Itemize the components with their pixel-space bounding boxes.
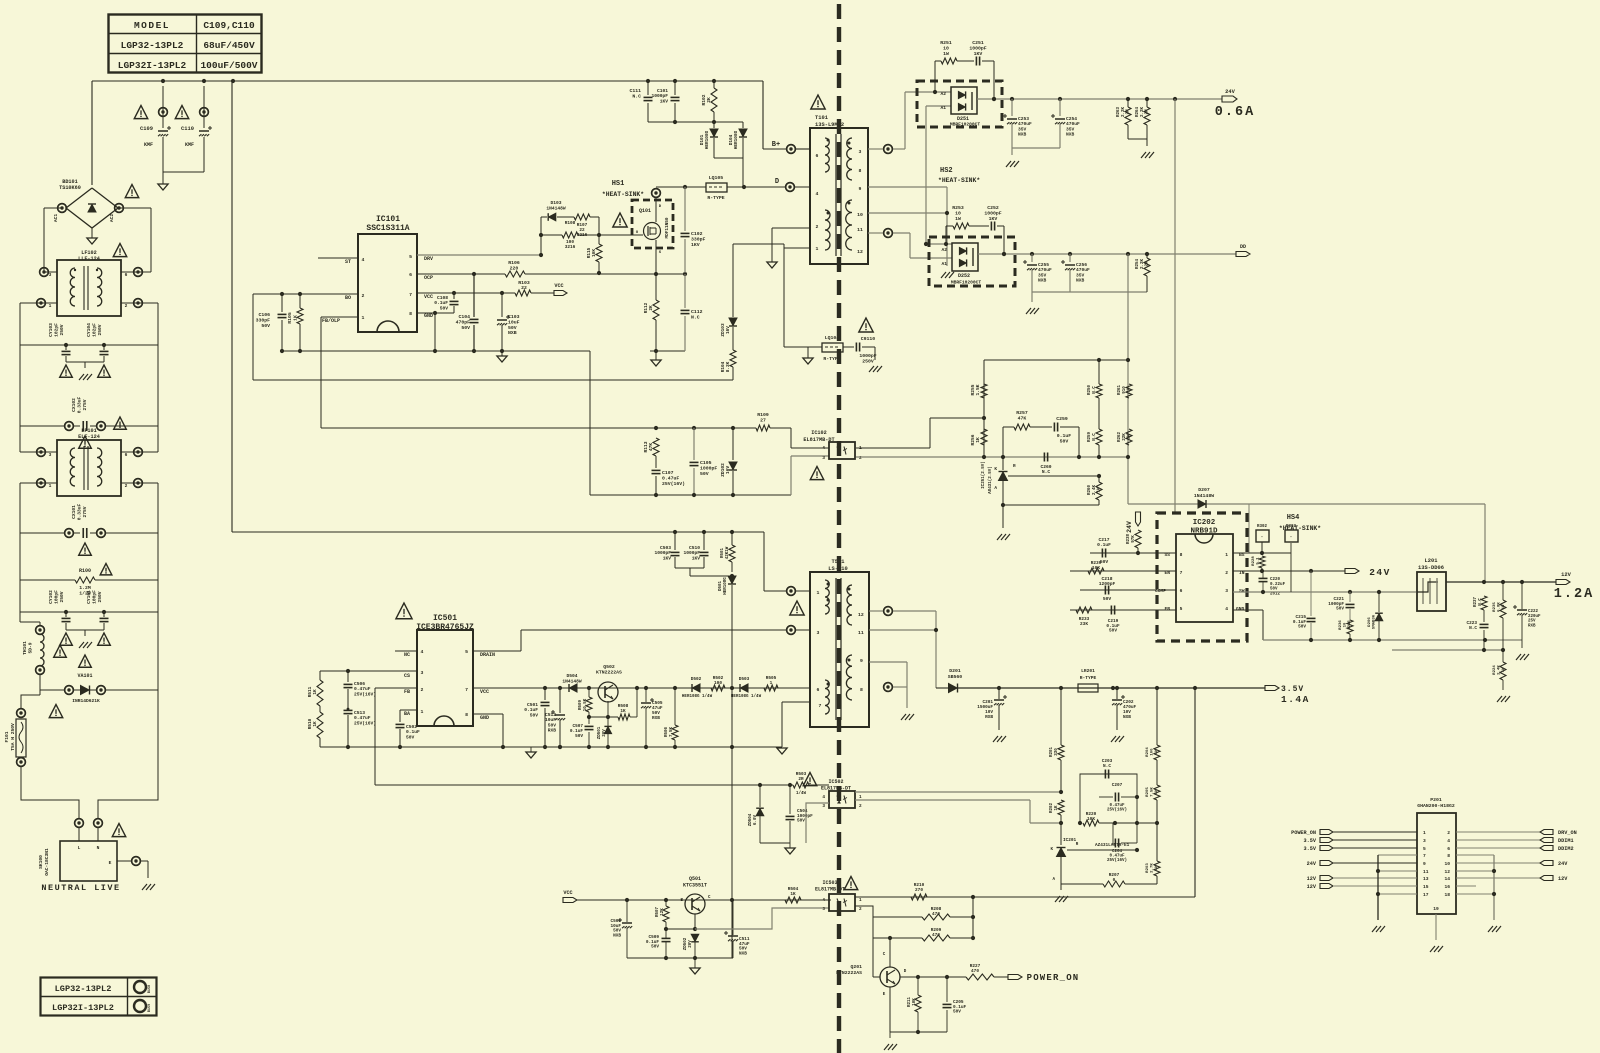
- svg-text:B159: B159: [148, 1004, 152, 1012]
- svg-text:100: 100: [714, 681, 722, 686]
- svg-text:14: 14: [1444, 876, 1450, 882]
- svg-text:1K: 1K: [620, 709, 626, 714]
- svg-text:16V: 16V: [726, 326, 731, 334]
- svg-text:3: 3: [49, 272, 52, 278]
- svg-text:27: 27: [760, 417, 766, 423]
- svg-text:330: 330: [1055, 748, 1059, 756]
- svg-text:DRAIN: DRAIN: [480, 652, 495, 658]
- svg-text:9: 9: [860, 658, 863, 664]
- svg-text:N.C: N.C: [691, 315, 700, 321]
- svg-text:IC501: IC501: [433, 614, 457, 623]
- svg-text:50V: 50V: [1270, 588, 1278, 592]
- svg-text:1.5K: 1.5K: [975, 384, 981, 395]
- svg-text:6: 6: [1180, 588, 1183, 594]
- svg-text:10K: 10K: [1087, 817, 1095, 822]
- svg-text:R201: R201: [1050, 746, 1054, 757]
- svg-text:C109: C109: [140, 126, 153, 132]
- svg-text:R251: R251: [940, 40, 952, 46]
- svg-text:4: 4: [362, 257, 365, 263]
- svg-text:3.5V: 3.5V: [1281, 685, 1304, 694]
- svg-text:250V: 250V: [97, 324, 103, 335]
- svg-text:KTN2222AS: KTN2222AS: [596, 670, 622, 676]
- svg-text:ST: ST: [345, 259, 351, 265]
- svg-text:INR14D621K: INR14D621K: [72, 698, 100, 704]
- svg-text:3: 3: [49, 452, 52, 458]
- svg-text:1W: 1W: [1128, 434, 1132, 440]
- svg-text:100pF: 100pF: [53, 590, 59, 604]
- svg-text:10K: 10K: [1092, 566, 1100, 571]
- svg-text:2.2K: 2.2K: [1141, 106, 1145, 117]
- svg-text:50V: 50V: [797, 819, 805, 824]
- svg-text:ZD102: ZD102: [720, 463, 726, 477]
- svg-text:NEUTRAL LIVE: NEUTRAL LIVE: [41, 883, 120, 893]
- svg-text:7: 7: [409, 292, 412, 298]
- svg-text:0.1uF: 0.1uF: [406, 729, 420, 735]
- svg-text:7.5K: 7.5K: [1151, 787, 1155, 797]
- svg-text:24V: 24V: [1126, 521, 1133, 533]
- svg-text:IC101: IC101: [376, 215, 400, 224]
- svg-text:R263: R263: [1117, 106, 1121, 117]
- svg-text:CX102: CX102: [71, 398, 77, 412]
- svg-text:1KV: 1KV: [692, 555, 701, 561]
- svg-text:LGP32-13PL2: LGP32-13PL2: [55, 984, 112, 994]
- svg-text:20V: 20V: [689, 940, 693, 948]
- svg-text:8: 8: [409, 311, 412, 317]
- svg-text:15: 15: [1423, 884, 1429, 890]
- svg-text:1200pF: 1200pF: [1099, 581, 1116, 587]
- svg-text:22: 22: [521, 285, 527, 291]
- svg-text:35V: 35V: [1018, 126, 1027, 132]
- svg-text:5: 5: [1180, 606, 1183, 612]
- svg-text:A1: A1: [941, 261, 947, 267]
- svg-text:1.4A: 1.4A: [1281, 694, 1310, 705]
- svg-text:R509: R509: [579, 699, 583, 710]
- svg-text:E: E: [109, 860, 112, 866]
- svg-text:8.2K: 8.2K: [726, 361, 731, 372]
- svg-text:R105: R105: [287, 312, 293, 324]
- svg-text:1KV: 1KV: [691, 242, 700, 248]
- svg-text:275V: 275V: [82, 399, 88, 410]
- svg-text:C506: C506: [354, 681, 365, 687]
- svg-text:Q502: Q502: [603, 664, 615, 670]
- svg-text:2W: 2W: [1127, 109, 1131, 115]
- svg-text:IC201: IC201: [1063, 838, 1077, 843]
- svg-text:3: 3: [1423, 838, 1426, 844]
- svg-text:R205: R205: [1146, 787, 1150, 797]
- svg-text:50V: 50V: [1103, 596, 1112, 602]
- svg-text:2.7K: 2.7K: [1151, 863, 1155, 873]
- svg-text:1N4148W: 1N4148W: [546, 205, 566, 211]
- svg-text:C501: C501: [527, 702, 538, 708]
- svg-text:DDIM2: DDIM2: [1558, 846, 1574, 852]
- svg-text:R236: R236: [1339, 620, 1343, 630]
- svg-text:2: 2: [125, 483, 128, 489]
- svg-text:0.33uF: 0.33uF: [76, 503, 82, 520]
- svg-text:*HEAT-SINK*: *HEAT-SINK*: [938, 177, 980, 184]
- svg-text:22K: 22K: [1123, 433, 1127, 441]
- svg-text:1000pF: 1000pF: [969, 45, 986, 51]
- svg-text:N.C: N.C: [1093, 433, 1097, 441]
- svg-text:D502: D502: [691, 677, 702, 682]
- svg-text:LGP32I-13PL2: LGP32I-13PL2: [52, 1003, 114, 1013]
- svg-text:6: 6: [817, 687, 820, 693]
- svg-text:LLF-124: LLF-124: [78, 256, 100, 262]
- svg-text:R211: R211: [908, 996, 912, 1007]
- svg-text:A2: A2: [941, 247, 947, 253]
- svg-text:0.47uF: 0.47uF: [1109, 804, 1125, 808]
- svg-text:23K: 23K: [1080, 622, 1088, 627]
- svg-text:AZ431LANTR-E1: AZ431LANTR-E1: [1095, 843, 1130, 848]
- svg-text:470uF: 470uF: [1038, 267, 1052, 273]
- svg-text:NXB: NXB: [1018, 132, 1027, 138]
- svg-text:B+: B+: [772, 141, 780, 149]
- svg-text:1.2A: 1.2A: [1554, 587, 1594, 602]
- svg-text:LR201: LR201: [1081, 668, 1095, 674]
- svg-text:24V: 24V: [1369, 567, 1391, 578]
- svg-text:SW: SW: [1239, 588, 1245, 594]
- svg-text:20V: 20V: [603, 729, 607, 737]
- svg-text:1K: 1K: [313, 689, 318, 695]
- svg-text:1K: 1K: [1055, 805, 1059, 811]
- svg-text:TS10K60: TS10K60: [59, 185, 81, 191]
- svg-text:A: A: [994, 486, 997, 491]
- svg-text:EL817MB-DT: EL817MB-DT: [821, 786, 851, 792]
- svg-text:10: 10: [1344, 622, 1348, 627]
- svg-text:1000pF: 1000pF: [651, 93, 668, 99]
- svg-text:50V: 50V: [1109, 629, 1117, 634]
- svg-text:10K: 10K: [913, 998, 917, 1006]
- svg-text:12V: 12V: [1558, 876, 1568, 882]
- svg-text:1K: 1K: [313, 721, 318, 727]
- svg-text:25V: 25V: [1528, 620, 1536, 624]
- svg-text:1: 1: [859, 898, 862, 903]
- svg-text:13S-DD06: 13S-DD06: [1418, 565, 1444, 571]
- svg-text:OAC-18C3N1: OAC-18C3N1: [44, 848, 50, 876]
- svg-text:7: 7: [465, 687, 468, 693]
- svg-text:1000pF: 1000pF: [859, 353, 876, 359]
- svg-text:C112: C112: [691, 309, 703, 315]
- svg-text:Q501: Q501: [689, 876, 701, 882]
- svg-text:N: N: [97, 845, 100, 851]
- svg-text:17: 17: [1423, 892, 1429, 898]
- svg-text:0.47uF: 0.47uF: [662, 476, 679, 482]
- svg-text:DD: DD: [1240, 244, 1246, 250]
- svg-text:BO: BO: [345, 295, 351, 301]
- svg-text:2.2K: 2.2K: [1122, 106, 1126, 117]
- svg-text:ZD504: ZD504: [749, 813, 753, 826]
- svg-text:12: 12: [858, 612, 864, 618]
- svg-text:BA: BA: [404, 711, 410, 717]
- svg-text:ZD502: ZD502: [684, 937, 688, 950]
- svg-text:N.C: N.C: [1479, 598, 1483, 606]
- svg-text:NXB: NXB: [1076, 278, 1085, 284]
- svg-text:6: 6: [1447, 846, 1450, 852]
- svg-text:4: 4: [822, 898, 825, 903]
- svg-text:HER108G: HER108G: [734, 130, 739, 149]
- svg-text:R224: R224: [1493, 665, 1497, 675]
- svg-text:OCP: OCP: [424, 275, 433, 281]
- svg-text:D503: D503: [739, 677, 750, 682]
- svg-text:R203: R203: [1146, 863, 1150, 873]
- svg-text:50V: 50V: [440, 305, 449, 311]
- svg-text:R102: R102: [701, 94, 707, 105]
- svg-text:2: 2: [859, 804, 862, 809]
- svg-text:10: 10: [857, 212, 863, 218]
- svg-text:2: 2: [125, 303, 128, 309]
- svg-text:50V: 50V: [261, 323, 270, 329]
- svg-text:KTC3551T: KTC3551T: [683, 883, 707, 889]
- svg-text:D251: D251: [957, 116, 969, 122]
- svg-text:1W: 1W: [1155, 749, 1159, 754]
- svg-text:10: 10: [1444, 861, 1450, 867]
- svg-text:IC202: IC202: [1193, 519, 1216, 527]
- svg-text:250V: 250V: [59, 591, 65, 602]
- svg-text:250V: 250V: [59, 324, 65, 335]
- svg-text:4: 4: [1447, 838, 1450, 844]
- svg-text:*HEAT-SINK*: *HEAT-SINK*: [602, 191, 644, 198]
- svg-text:0: 0: [1113, 878, 1116, 883]
- svg-text:50V: 50V: [406, 734, 415, 740]
- svg-text:Q201: Q201: [850, 964, 862, 970]
- svg-text:5: 5: [1423, 846, 1426, 852]
- svg-text:35V: 35V: [1066, 126, 1075, 132]
- svg-text:IC503: IC503: [822, 880, 837, 886]
- svg-text:R259: R259: [1088, 431, 1092, 442]
- svg-text:VCC: VCC: [563, 890, 572, 896]
- svg-text:P201: P201: [1430, 797, 1442, 803]
- svg-text:3: 3: [421, 670, 424, 676]
- svg-text:CY101: CY101: [86, 590, 92, 604]
- svg-text:1K: 1K: [975, 437, 981, 443]
- svg-text:0.33uF: 0.33uF: [76, 396, 82, 413]
- svg-text:D504: D504: [566, 673, 577, 679]
- svg-text:16: 16: [1444, 884, 1450, 890]
- svg-text:C111: C111: [629, 88, 641, 94]
- svg-text:NXB: NXB: [1123, 715, 1131, 720]
- svg-text:DDIM1: DDIM1: [1558, 838, 1574, 844]
- svg-text:102pF: 102pF: [91, 323, 97, 337]
- svg-text:11: 11: [858, 630, 864, 636]
- svg-text:12K: 12K: [661, 908, 665, 916]
- svg-text:HS1: HS1: [612, 180, 625, 188]
- svg-text:50V: 50V: [548, 722, 557, 728]
- svg-text:C102: C102: [691, 231, 703, 237]
- svg-text:R303: R303: [1286, 525, 1297, 529]
- svg-text:8: 8: [860, 687, 863, 693]
- svg-text:R262: R262: [1118, 431, 1122, 442]
- svg-text:1W: 1W: [1155, 789, 1159, 794]
- svg-text:25V(16V): 25V(16V): [354, 720, 376, 726]
- svg-text:R507: R507: [656, 906, 660, 917]
- svg-text:CX101: CX101: [71, 505, 77, 519]
- svg-text:D252: D252: [958, 273, 970, 279]
- svg-text:C9110: C9110: [861, 336, 876, 342]
- svg-text:NXB: NXB: [1066, 132, 1075, 138]
- svg-text:Q101: Q101: [639, 208, 651, 214]
- svg-text:IC502: IC502: [828, 779, 843, 785]
- svg-text:1W: 1W: [1502, 604, 1506, 609]
- svg-text:C513: C513: [354, 710, 365, 716]
- svg-text:MODEL: MODEL: [134, 20, 170, 31]
- svg-text:F101: F101: [4, 731, 10, 742]
- svg-text:4: 4: [822, 445, 825, 451]
- svg-text:3.5V: 3.5V: [1304, 846, 1317, 852]
- svg-text:R254: R254: [1136, 258, 1140, 269]
- svg-text:5D-9: 5D-9: [27, 642, 33, 653]
- svg-text:12: 12: [1444, 869, 1450, 875]
- svg-text:POWER_ON: POWER_ON: [1027, 973, 1080, 983]
- svg-text:DRV_ON: DRV_ON: [1558, 830, 1577, 836]
- svg-text:HS4: HS4: [1287, 514, 1300, 522]
- svg-text:50V: 50V: [651, 945, 659, 950]
- svg-text:NXB: NXB: [1038, 278, 1047, 284]
- svg-text:C108: C108: [437, 295, 448, 301]
- svg-text:HER108G: HER108G: [724, 577, 728, 595]
- svg-text:C110: C110: [181, 126, 194, 132]
- svg-text:CS: CS: [404, 673, 410, 679]
- svg-text:MDF11N50: MDF11N50: [665, 217, 670, 238]
- svg-text:FB: FB: [404, 689, 410, 695]
- svg-text:24V: 24V: [1307, 861, 1317, 867]
- svg-text:C253: C253: [1018, 116, 1029, 122]
- svg-text:25V(16V): 25V(16V): [662, 481, 685, 487]
- svg-text:C207: C207: [1112, 783, 1123, 788]
- svg-text:9: 9: [859, 186, 862, 192]
- svg-text:T5A H 250V: T5A H 250V: [10, 723, 16, 751]
- svg-text:IC102: IC102: [811, 430, 827, 436]
- svg-text:11: 11: [1423, 869, 1429, 875]
- svg-text:47K: 47K: [1018, 415, 1027, 421]
- svg-text:25V(16V): 25V(16V): [1107, 858, 1127, 863]
- svg-text:R202: R202: [1050, 802, 1054, 813]
- svg-text:HER108G: HER108G: [705, 130, 710, 149]
- svg-text:12V: 12V: [1561, 572, 1571, 578]
- svg-text:330pF: 330pF: [691, 237, 706, 243]
- svg-text:35V: 35V: [1076, 272, 1085, 278]
- svg-text:250V: 250V: [97, 591, 103, 602]
- svg-text:IC251(2.5V): IC251(2.5V): [981, 461, 986, 489]
- svg-text:C109,C110: C109,C110: [203, 20, 255, 31]
- svg-text:C512: C512: [545, 712, 556, 718]
- svg-text:KMF: KMF: [144, 142, 153, 148]
- svg-text:10: 10: [955, 210, 961, 216]
- svg-text:C204: C204: [1112, 850, 1123, 854]
- svg-text:3: 3: [817, 630, 820, 636]
- svg-text:1KV: 1KV: [989, 216, 998, 222]
- svg-text:10uF: 10uF: [508, 319, 520, 325]
- svg-text:N.C: N.C: [1103, 764, 1111, 769]
- svg-text:8: 8: [1180, 552, 1183, 558]
- svg-text:2R: 2R: [798, 777, 804, 782]
- svg-text:VCC: VCC: [424, 294, 433, 300]
- svg-text:1000pF: 1000pF: [654, 550, 671, 556]
- svg-text:C107: C107: [662, 470, 674, 476]
- svg-text:50V: 50V: [1060, 439, 1069, 445]
- svg-text:R237: R237: [1474, 596, 1478, 607]
- svg-text:RXB: RXB: [652, 716, 660, 721]
- svg-text:N.C: N.C: [632, 93, 641, 99]
- svg-text:R-TYPE: R-TYPE: [707, 195, 724, 201]
- svg-text:D501: D501: [719, 580, 723, 591]
- svg-text:C217: C217: [1098, 537, 1109, 543]
- svg-text:1N4148W: 1N4148W: [1194, 493, 1214, 499]
- svg-text:7: 7: [1423, 853, 1426, 859]
- svg-text:0.1uF: 0.1uF: [1097, 542, 1111, 548]
- svg-text:102pF: 102pF: [53, 323, 59, 337]
- svg-text:1000pF: 1000pF: [700, 466, 717, 472]
- svg-text:100uF/500V: 100uF/500V: [200, 60, 257, 71]
- svg-text:0.47uF: 0.47uF: [354, 715, 371, 721]
- svg-text:MBRF10200CT: MBRF10200CT: [951, 280, 982, 286]
- svg-text:R109: R109: [757, 412, 769, 418]
- svg-text:10uF: 10uF: [545, 717, 556, 723]
- svg-text:R253: R253: [952, 205, 964, 211]
- svg-text:NXB: NXB: [508, 330, 517, 336]
- svg-text:6: 6: [125, 272, 128, 278]
- svg-text:COMP: COMP: [1155, 588, 1166, 594]
- svg-text:GND: GND: [1236, 606, 1245, 612]
- svg-text:R103: R103: [518, 280, 530, 286]
- svg-text:8: 8: [859, 168, 862, 174]
- svg-text:270: 270: [915, 888, 923, 893]
- svg-text:2: 2: [1447, 830, 1450, 836]
- svg-text:HER108G 1/4W: HER108G 1/4W: [682, 694, 713, 699]
- svg-text:KMF: KMF: [185, 142, 194, 148]
- svg-text:1KV: 1KV: [663, 555, 672, 561]
- svg-text:GND: GND: [424, 313, 433, 319]
- svg-text:6: 6: [816, 153, 819, 159]
- svg-text:2K: 2K: [649, 305, 654, 311]
- svg-text:2.4K: 2.4K: [1498, 665, 1502, 675]
- svg-text:910: 910: [1123, 386, 1127, 394]
- svg-text:50V: 50V: [700, 471, 709, 477]
- svg-text:470uF: 470uF: [1066, 121, 1080, 127]
- svg-text:330pF: 330pF: [256, 318, 271, 324]
- svg-text:2.4K: 2.4K: [1093, 484, 1097, 495]
- svg-text:TH101: TH101: [22, 641, 28, 655]
- svg-text:18: 18: [1444, 892, 1450, 898]
- svg-text:470uF: 470uF: [1076, 267, 1090, 273]
- svg-text:1: 1: [816, 246, 819, 252]
- svg-text:SK100: SK100: [38, 855, 44, 869]
- svg-text:1000pF: 1000pF: [984, 210, 1001, 216]
- svg-text:1W: 1W: [1155, 865, 1159, 870]
- svg-text:1000pF: 1000pF: [683, 550, 700, 556]
- svg-text:R113: R113: [643, 441, 649, 452]
- svg-text:2: 2: [859, 907, 862, 912]
- svg-text:1W: 1W: [1502, 667, 1506, 672]
- svg-text:50V: 50V: [1336, 607, 1344, 612]
- svg-text:1W: 1W: [1128, 387, 1132, 393]
- svg-text:3: 3: [859, 149, 862, 155]
- svg-text:N.C: N.C: [1469, 626, 1477, 631]
- svg-text:35V: 35V: [1038, 272, 1047, 278]
- svg-text:50V: 50V: [575, 734, 583, 739]
- svg-text:R: R: [1013, 464, 1016, 469]
- svg-text:B158: B158: [148, 985, 152, 993]
- svg-text:3216: 3216: [1348, 620, 1352, 630]
- svg-text:0.47uF: 0.47uF: [354, 686, 371, 692]
- svg-text:C103: C103: [508, 314, 520, 320]
- svg-text:8: 8: [1447, 853, 1450, 859]
- svg-text:2: 2: [859, 455, 862, 461]
- svg-text:GND: GND: [480, 715, 489, 721]
- svg-text:AC2: AC2: [109, 214, 115, 223]
- svg-text:7: 7: [1180, 570, 1183, 576]
- svg-text:2012: 2012: [1270, 592, 1281, 596]
- svg-text:10: 10: [943, 45, 949, 51]
- svg-text:A2: A2: [940, 91, 946, 97]
